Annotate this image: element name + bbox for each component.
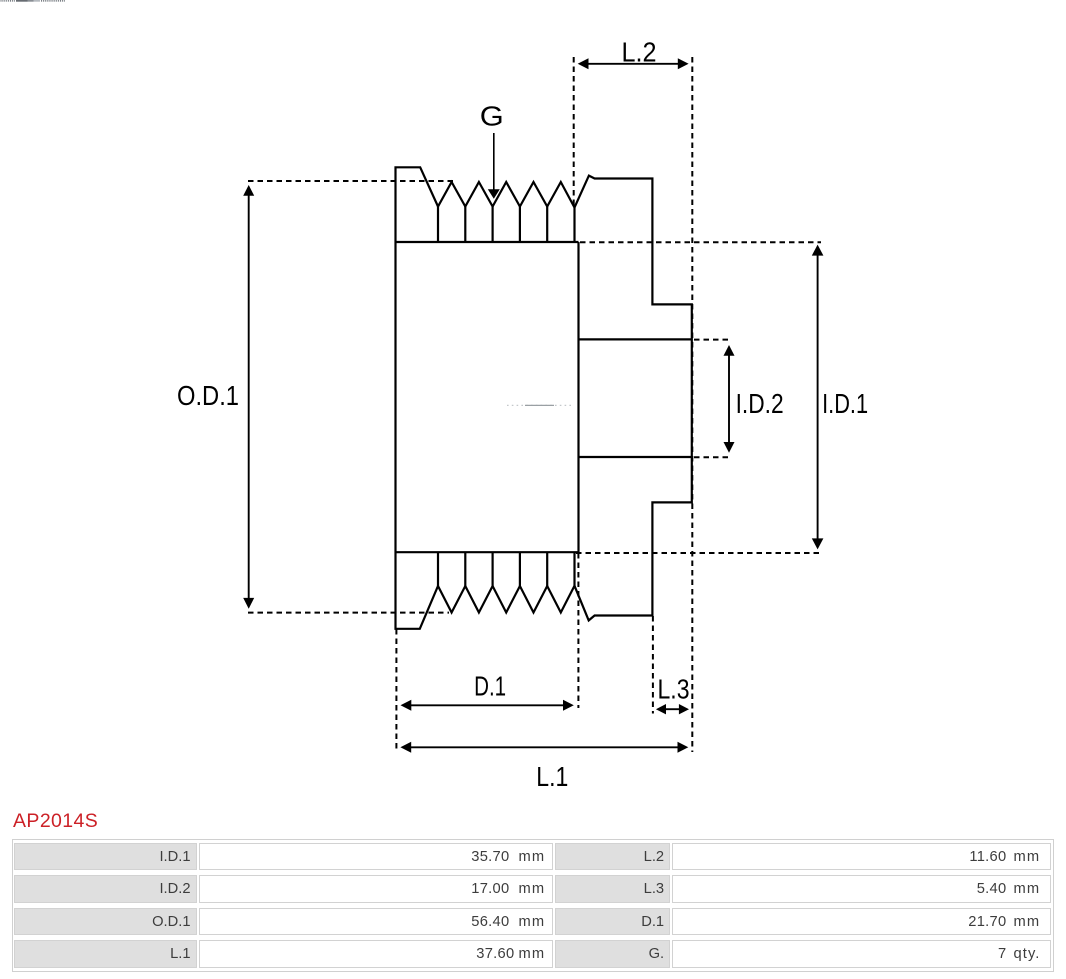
groove rib verticals top (438, 207, 575, 243)
dimension L.1 (400, 742, 688, 792)
svg-text:L.1: L.1 (536, 761, 568, 792)
dimension L.2 (574, 37, 693, 753)
svg-text:O.D.1: O.D.1 (177, 380, 239, 411)
bore bottom line I.D.2 lower (579, 456, 692, 458)
bore top line I.D.2 upper (579, 338, 692, 340)
pulley outer profile (396, 167, 692, 629)
part number label (13, 810, 98, 833)
dimension I.D.1 (576, 242, 868, 553)
cropped logo artifact top-left (1, 0, 65, 2)
dimension D.1 (396, 553, 578, 752)
groove rib verticals bottom (438, 552, 575, 586)
svg-text:L.2: L.2 (622, 37, 657, 68)
groove count G label and arrow (480, 101, 504, 199)
svg-text:L.3: L.3 (658, 673, 690, 704)
pulley body bottom line (396, 551, 579, 553)
svg-text:G: G (480, 101, 504, 132)
dimension O.D.1 (177, 181, 454, 613)
svg-text:I.D.1: I.D.1 (822, 388, 868, 419)
svg-text:I.D.2: I.D.2 (736, 388, 784, 419)
centerline faint (507, 404, 574, 406)
dimensions table (12, 839, 1054, 972)
pulley body top line (396, 241, 579, 243)
svg-text:D.1: D.1 (474, 671, 506, 702)
pulley body right edge (577, 242, 579, 552)
dimension L.3 (653, 616, 690, 714)
dimension I.D.2 (694, 340, 784, 458)
